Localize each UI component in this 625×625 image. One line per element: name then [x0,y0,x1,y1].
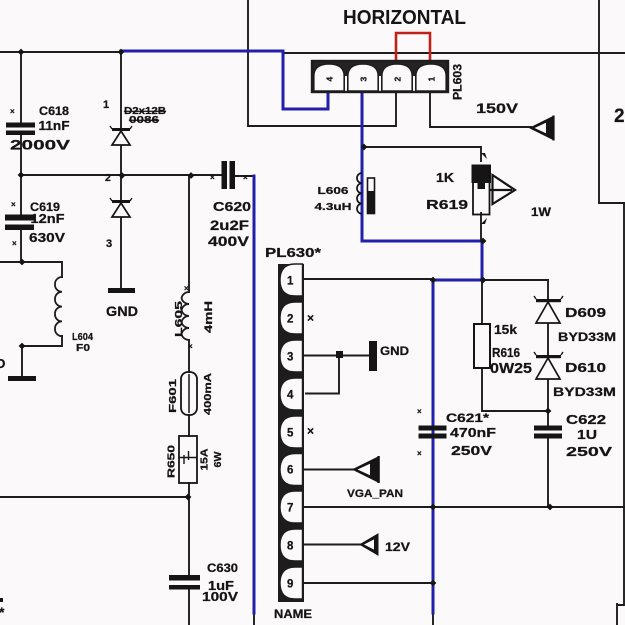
svg-text:1: 1 [103,99,109,111]
svg-text:×: × [210,173,215,182]
svg-text:0086: 0086 [129,115,160,126]
svg-text:4mH: 4mH [203,301,215,333]
svg-text:BYD33M: BYD33M [558,330,616,344]
svg-text:C620: C620 [213,199,251,214]
svg-text:F601: F601 [168,378,179,413]
svg-text:12V: 12V [385,540,410,554]
svg-text:L605: L605 [173,301,185,337]
svg-text:L606: L606 [318,186,350,197]
svg-text:C621*: C621* [446,411,489,425]
svg-text:D609: D609 [565,305,606,320]
svg-text:250V: 250V [566,444,612,459]
svg-text:PL630*: PL630* [265,246,321,260]
svg-text:×: × [184,284,189,293]
svg-text:VGA_PAN: VGA_PAN [347,488,403,500]
svg-text:×: × [417,449,422,458]
svg-text:HORIZONTAL: HORIZONTAL [343,7,466,29]
svg-text:6W: 6W [213,451,224,468]
svg-text:150V: 150V [476,101,518,116]
svg-text:×: × [307,424,314,438]
svg-text:4.3uH: 4.3uH [315,201,352,213]
svg-text:NAME: NAME [274,607,312,621]
svg-text:1: 1 [287,276,294,288]
svg-text:×: × [243,173,248,182]
svg-text:L604: L604 [72,332,93,343]
svg-text:×: × [11,200,16,209]
svg-text:2: 2 [614,106,625,127]
svg-text:8: 8 [287,541,294,553]
svg-text:2u2F: 2u2F [210,217,250,233]
svg-text:F0: F0 [76,343,91,354]
svg-text:2: 2 [393,77,403,82]
svg-text:470nF: 470nF [450,425,496,440]
svg-text:630V: 630V [29,230,65,245]
svg-text:0W25: 0W25 [490,360,532,377]
svg-text:D610: D610 [565,360,606,375]
svg-text:2: 2 [287,314,293,326]
svg-text:R650: R650 [166,445,178,478]
svg-text:3: 3 [359,77,369,82]
svg-text:4: 4 [287,390,294,402]
svg-text:*: * [0,604,5,620]
svg-text:R619: R619 [426,197,468,212]
svg-text:12nF: 12nF [31,211,65,226]
svg-text:1U: 1U [577,427,597,442]
svg-text:6: 6 [287,465,293,477]
svg-text:7: 7 [287,503,293,515]
svg-text:2: 2 [105,172,111,184]
svg-text:×: × [188,342,193,351]
svg-text:3: 3 [106,238,112,250]
svg-text:R616: R616 [492,345,520,360]
svg-text:1W: 1W [531,205,552,219]
svg-text:1: 1 [427,77,437,82]
svg-text:3: 3 [287,352,293,364]
svg-text:11nF: 11nF [39,118,70,133]
svg-text:C622: C622 [566,412,606,427]
svg-text:100V: 100V [202,589,238,604]
svg-text:×: × [307,311,314,325]
svg-text:2000V: 2000V [10,137,71,153]
svg-text:4: 4 [325,77,335,82]
svg-text:GND: GND [380,344,409,358]
svg-text:×: × [417,407,422,416]
svg-text:15A: 15A [200,449,211,471]
svg-text:5: 5 [287,428,294,440]
svg-text:×: × [10,107,15,116]
svg-text:400mA: 400mA [203,373,214,415]
svg-text:15k: 15k [494,322,518,337]
svg-text:9: 9 [287,579,293,591]
svg-text:GND: GND [106,303,138,319]
svg-text:250V: 250V [451,443,492,458]
svg-text:1K: 1K [436,170,455,185]
svg-text:C618: C618 [39,104,69,118]
svg-text:C630: C630 [207,561,238,575]
svg-text:D: D [0,356,5,371]
svg-text:×: × [12,239,17,248]
svg-text:PL603: PL603 [453,64,465,100]
svg-text:400V: 400V [208,233,250,249]
svg-text:BYD33M: BYD33M [553,385,616,399]
